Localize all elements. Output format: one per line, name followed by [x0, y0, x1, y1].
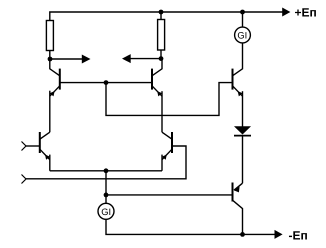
svg-text:-Еп: -Еп: [289, 229, 308, 243]
svg-text:GI: GI: [101, 207, 111, 217]
svg-text:+Еп: +Еп: [295, 5, 317, 19]
svg-text:GI: GI: [237, 31, 247, 41]
